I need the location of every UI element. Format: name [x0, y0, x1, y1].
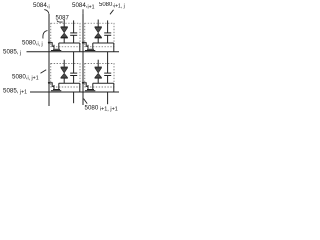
capacitor 5083 (cell i,j+1) bottom lead to node: [73, 76, 75, 84]
capacitor 5083 (cell i+1,j) bottom plate: [104, 34, 111, 36]
transistor 5081 (cell i,j+1) source leg: [53, 85, 55, 89]
capacitor 5083 (cell i+1,j) top stub: [107, 20, 109, 33]
capacitor 5083 (cell i,j+1) bottom plate: [70, 75, 77, 77]
wire: cell i,j right branch down to scan line: [79, 43, 81, 52]
node: junction of transistor source with bus 5084 (cell i,j+1): [48, 82, 50, 84]
element 5087 (cell i+1,j) bottom plate bar: [95, 37, 102, 39]
leader from label 5084_i to bus: [44, 10, 49, 14]
capacitor 5083 (cell i,j+1) top plate: [70, 72, 77, 74]
transistor 5081 (cell i+1,j+1) source wire from bus: [83, 83, 88, 87]
transistor 5081 (cell i,j+1) channel bar: [53, 89, 60, 91]
transistor 5081 (cell i,j) drain leg: [58, 43, 60, 49]
node: junction of transistor source with bus 5084 (cell i+1,j): [82, 42, 84, 44]
capacitor 5083 (cell i,j) bottom plate: [70, 34, 77, 36]
svg-text:5084,i+1: 5084,i+1: [72, 2, 95, 10]
capacitor 5083 (cell i+1,j) top plate: [104, 32, 111, 34]
element 5087 (cell i,j+1) top stub: [63, 60, 65, 67]
element 5087 (cell i,j) bottom stub to node: [63, 38, 65, 43]
svg-text:5084,i: 5084,i: [33, 2, 50, 10]
transistor 5081 (cell i,j+1) gate bar: [51, 90, 61, 92]
element 5087 (cell i+1,j+1) bottom plate bar: [95, 77, 102, 79]
pixel 5080_i,j dashed cell box: [51, 23, 80, 47]
capacitor 5083 (cell i+1,j+1) top stub: [107, 52, 109, 73]
wire: cell i+1,j+1 right branch down to scan line: [113, 83, 115, 92]
svg-text:5085, j+1: 5085, j+1: [3, 88, 27, 96]
leader from label 5084_i+1 to bus: [82, 9, 84, 13]
element 5087 (cell i+1,j) top plate bar: [95, 26, 102, 28]
wire: cell i+1,j right branch down to scan line: [113, 43, 115, 52]
transistor 5081 (cell i,j) source leg: [53, 45, 55, 49]
transistor 5081 (cell i,j+1) drain leg: [58, 83, 60, 89]
element 5087 (cell i,j) top plate bar: [61, 26, 68, 28]
element 5087 (cell i,j+1) bottom plate bar: [61, 77, 68, 79]
wire: storage node of cell i+1,j+1: [93, 82, 114, 84]
wire: cell i,j+1 right branch down to scan line: [79, 83, 81, 92]
capacitor 5083 (cell i+1,j) bottom lead to node: [107, 35, 109, 43]
svg-text:5080,i, j: 5080,i, j: [22, 39, 43, 47]
element 5087 (cell i+1,j+1) top plate bar: [95, 66, 102, 68]
wire: storage node of cell i,j: [59, 42, 80, 44]
transistor 5081 (cell i,j) source wire from bus: [49, 43, 54, 47]
wire: capacitor stub of off-figure cell i+1,j+2: [107, 92, 109, 104]
svg-text:5080 i+1, j+1: 5080 i+1, j+1: [85, 104, 118, 112]
transistor 5081 (cell i+1,j) source wire from bus: [83, 43, 88, 47]
capacitor 5083 (cell i,j+1) top stub: [73, 52, 75, 73]
element 5087 (cell i,j) lower diode triangle (up): [61, 33, 68, 37]
element 5087 (cell i,j+1) top plate bar: [61, 66, 68, 68]
svg-text:5080,i, j+1: 5080,i, j+1: [12, 73, 39, 81]
transistor 5081 (cell i,j) channel bar: [53, 48, 60, 50]
pixel 5080_i+1,j+1 dashed cell box: [85, 63, 114, 87]
node: junction of transistor source with bus 5084 (cell i,j): [48, 42, 50, 44]
node: junction of transistor source with bus 5084 (cell i+1,j+1): [82, 82, 84, 84]
element 5087 (cell i,j+1) lower diode triangle (up): [61, 73, 68, 77]
svg-text:5080,i+1, j: 5080,i+1, j: [99, 2, 125, 9]
wire: storage node of cell i+1,j: [93, 42, 114, 44]
capacitor 5083 (cell i+1,j+1) top plate: [104, 72, 111, 74]
pixel 5080_i+1,j dashed cell box: [85, 23, 114, 47]
transistor 5081 (cell i+1,j+1) source leg: [87, 85, 89, 89]
wire: storage node of cell i,j+1: [59, 82, 80, 84]
element 5087 (cell i+1,j+1) upper diode triangle (down): [95, 68, 102, 73]
leader from label 5080_i+1,j+1 to cell box: [84, 99, 88, 104]
wire: scan line 5085_j (row j): [27, 51, 120, 53]
leader from label 5080_i,j to cell box: [43, 31, 48, 39]
transistor 5081 (cell i+1,j) gate bar: [85, 50, 95, 52]
transistor 5081 (cell i,j+1) source wire from bus: [49, 83, 54, 87]
transistor 5081 (cell i+1,j) source leg: [87, 45, 89, 49]
element 5087 (cell i,j) top stub: [63, 20, 65, 27]
element 5087 (cell i+1,j) lower diode triangle (up): [95, 33, 102, 37]
capacitor 5083 (cell i+1,j+1) bottom plate: [104, 75, 111, 77]
transistor 5081 (cell i+1,j+1) drain leg: [92, 83, 94, 89]
capacitor 5083 (cell i+1,j+1) bottom lead to node: [107, 76, 109, 84]
wire: signal line 5084_i (column bus i): [48, 14, 50, 106]
element 5087 (cell i+1,j+1) top stub: [97, 60, 99, 67]
element 5087 (cell i+1,j) upper diode triangle (down): [95, 28, 102, 33]
element 5087 (cell i,j) bottom plate bar: [61, 37, 68, 39]
leader from label 5087 to element top: [57, 21, 63, 23]
element 5087 (cell i+1,j) bottom stub to node: [97, 38, 99, 43]
wire: scan line 5085_j+1 (row j+1): [30, 91, 119, 93]
element 5087 (cell i+1,j) top stub: [97, 20, 99, 27]
transistor 5081 (cell i+1,j) drain leg: [92, 43, 94, 49]
svg-text:5085, j: 5085, j: [3, 48, 21, 56]
transistor 5081 (cell i+1,j+1) channel bar: [87, 89, 94, 91]
element 5087 (cell i,j+1) bottom stub to node: [63, 78, 65, 83]
pixel 5080_i,j+1 dashed cell box: [51, 63, 80, 87]
transistor 5081 (cell i+1,j) channel bar: [87, 48, 94, 50]
transistor 5081 (cell i+1,j+1) gate bar: [85, 90, 95, 92]
leader from label 5080_i+1,j: [110, 10, 114, 15]
element 5087 (cell i,j+1) upper diode triangle (down): [61, 68, 68, 73]
wire: signal line 5084_i+1 (column bus i+1): [82, 13, 84, 105]
transistor 5081 (cell i,j) gate bar: [51, 50, 61, 52]
element 5087 (cell i+1,j+1) bottom stub to node: [97, 78, 99, 83]
element 5087 (cell i+1,j+1) lower diode triangle (up): [95, 73, 102, 77]
capacitor 5083 (cell i,j) bottom lead to node: [73, 35, 75, 43]
leader from label 5080_i,j+1 to cell box: [41, 70, 47, 73]
capacitor 5083 (cell i,j) top plate: [70, 32, 77, 34]
element 5087 (cell i,j) upper diode triangle (down): [61, 28, 68, 33]
capacitor 5083 (cell i,j) top stub: [73, 20, 75, 33]
wire: capacitor stub of off-figure cell i,j+2: [73, 92, 75, 103]
